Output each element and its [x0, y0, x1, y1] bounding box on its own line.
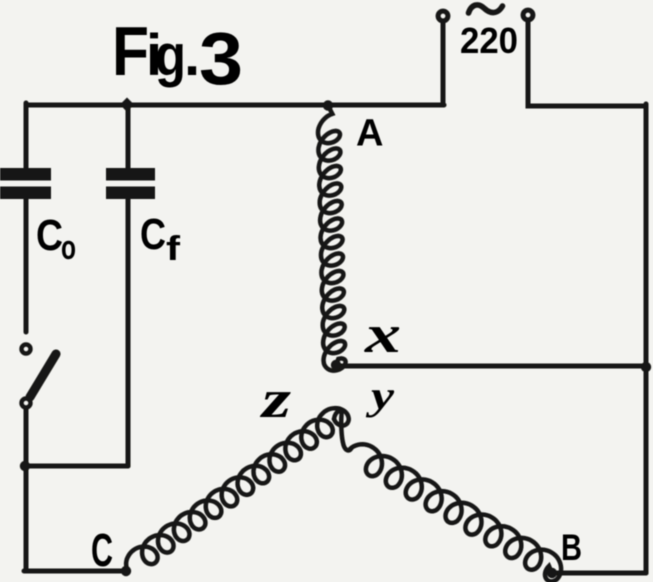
wire: left rail mid (Co to switch): [24, 199, 29, 332]
node: junction top of coil A: [323, 100, 333, 110]
wire: left rail upper (to Co): [24, 103, 29, 168]
wire: right supply terminal lead: [528, 22, 646, 106]
node C terminal dot: [121, 566, 131, 576]
wire: star point bridge at peak: [334, 411, 352, 450]
wire: shunt connector switch-to-Cf: [26, 464, 128, 469]
wire: right rail: [644, 104, 649, 573]
capacitor Cf: [106, 168, 155, 199]
winding z (C to star point): [126, 408, 349, 571]
capacitor Co: [0, 168, 51, 199]
svg-text:.: .: [184, 23, 200, 88]
supply terminal right (ring): [523, 10, 533, 20]
switch S (knife switch, open): [22, 345, 57, 408]
wire: left rail lower (switch to bottom corner): [24, 409, 29, 571]
svg-text:o: o: [61, 229, 76, 267]
svg-text:F: F: [112, 12, 149, 90]
svg-text:z: z: [259, 369, 291, 429]
node: junction dot at Fig3 bus / Co-Cf branch: [120, 98, 134, 113]
svg-text:C: C: [36, 211, 63, 260]
wire: bottom-left horizontal to C: [24, 569, 126, 574]
wire: Cf top lead: [126, 103, 131, 168]
label Fig.3: [112, 12, 243, 100]
winding A-x (main phase coil): [318, 105, 346, 371]
svg-text:C: C: [140, 210, 166, 259]
node B terminal dot: [547, 568, 557, 578]
wire: top horizontal bus: [26, 103, 444, 108]
svg-text:y: y: [366, 373, 394, 418]
svg-text:220: 220: [460, 20, 518, 61]
node: junction switch leg to shunt: [20, 461, 30, 471]
svg-text:3: 3: [199, 17, 243, 100]
svg-text:g: g: [155, 23, 186, 88]
wire: node x horizontal to right rail: [336, 364, 646, 369]
svg-text:B: B: [561, 527, 582, 568]
svg-text:A: A: [356, 113, 383, 155]
node x: junction bottom of coil A: [331, 360, 341, 370]
supply terminal left (ring): [438, 11, 448, 21]
wire: bottom-right horizontal from B: [552, 571, 646, 576]
node: junction x-wire to right rail: [641, 362, 651, 372]
winding y (star point to B): [350, 444, 561, 581]
wire: left supply terminal lead: [441, 23, 446, 105]
svg-text:x: x: [364, 304, 401, 364]
svg-text:C: C: [91, 524, 113, 576]
svg-text:f: f: [166, 230, 181, 268]
wire: Cf bottom lead: [126, 199, 131, 466]
label ~ (AC): [469, 5, 503, 13]
